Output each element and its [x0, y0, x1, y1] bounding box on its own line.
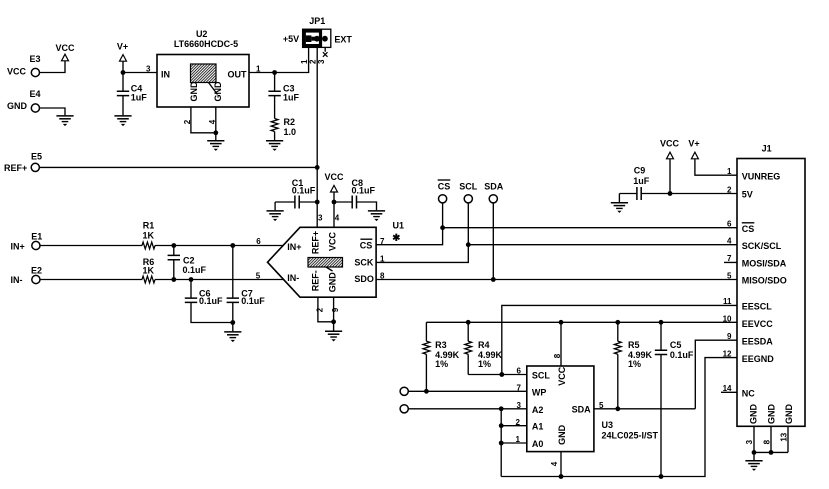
- svg-text:0.1uF: 0.1uF: [241, 296, 265, 306]
- svg-text:7: 7: [380, 237, 385, 246]
- svg-text:3: 3: [517, 401, 522, 410]
- svg-text:R1: R1: [143, 220, 155, 230]
- svg-text:GND: GND: [784, 404, 794, 425]
- svg-text:IN+: IN+: [11, 241, 25, 251]
- svg-text:1%: 1%: [478, 359, 491, 369]
- svg-text:E4: E4: [29, 89, 40, 99]
- svg-text:EESCL: EESCL: [742, 302, 773, 312]
- svg-text:A2: A2: [532, 405, 544, 415]
- svg-text:V+: V+: [688, 139, 699, 149]
- svg-text:GND: GND: [749, 404, 759, 425]
- svg-text:1uF: 1uF: [633, 176, 650, 186]
- svg-text:3: 3: [146, 64, 151, 73]
- svg-text:A0: A0: [532, 439, 544, 449]
- svg-text:8: 8: [380, 272, 385, 281]
- svg-text:1: 1: [256, 64, 261, 73]
- svg-text:0.1uF: 0.1uF: [352, 186, 376, 196]
- svg-text:C5: C5: [670, 340, 682, 350]
- svg-text:GND: GND: [557, 424, 567, 445]
- svg-text:JP1: JP1: [309, 16, 325, 26]
- svg-text:1K: 1K: [142, 266, 154, 276]
- svg-text:SDO: SDO: [354, 274, 374, 284]
- svg-text:OUT: OUT: [228, 70, 248, 80]
- svg-text:R3: R3: [435, 340, 447, 350]
- svg-text:1%: 1%: [628, 359, 641, 369]
- svg-text:13: 13: [779, 432, 788, 441]
- svg-text:7: 7: [517, 384, 522, 393]
- svg-text:12: 12: [723, 349, 732, 358]
- svg-text:VCC: VCC: [7, 66, 27, 76]
- svg-text:3: 3: [317, 59, 326, 64]
- svg-text:U2: U2: [196, 29, 208, 39]
- svg-text:24LC025-I/ST: 24LC025-I/ST: [602, 430, 659, 440]
- svg-text:11: 11: [723, 297, 732, 306]
- svg-text:SCL: SCL: [532, 370, 551, 380]
- svg-text:+5V: +5V: [283, 34, 299, 44]
- svg-text:4: 4: [727, 237, 732, 246]
- svg-text:E5: E5: [31, 152, 42, 162]
- svg-text:CS: CS: [742, 224, 755, 234]
- svg-text:IN-: IN-: [287, 273, 299, 283]
- svg-text:VCC: VCC: [557, 366, 567, 386]
- svg-text:R5: R5: [628, 340, 640, 350]
- svg-text:4: 4: [335, 213, 340, 222]
- svg-text:4: 4: [550, 461, 559, 466]
- svg-text:10: 10: [723, 314, 732, 323]
- svg-text:EEGND: EEGND: [742, 354, 775, 364]
- svg-text:3: 3: [318, 213, 323, 222]
- svg-text:SCK/SCL: SCK/SCL: [742, 241, 782, 251]
- svg-text:V+: V+: [117, 42, 128, 52]
- svg-text:NC: NC: [742, 389, 755, 399]
- svg-text:GND: GND: [213, 81, 223, 102]
- svg-text:SDA: SDA: [484, 181, 504, 191]
- svg-text:1%: 1%: [435, 359, 448, 369]
- svg-text:1uF: 1uF: [131, 93, 148, 103]
- svg-text:2: 2: [516, 418, 521, 427]
- svg-text:14: 14: [723, 384, 732, 393]
- svg-text:GND: GND: [7, 101, 28, 111]
- svg-text:5: 5: [599, 401, 604, 410]
- svg-text:2: 2: [315, 307, 324, 312]
- svg-text:GND: GND: [189, 81, 199, 102]
- svg-text:6: 6: [727, 220, 732, 229]
- svg-text:0.1uF: 0.1uF: [292, 186, 316, 196]
- svg-text:1K: 1K: [142, 231, 154, 241]
- svg-text:CS: CS: [360, 240, 373, 250]
- svg-text:1uF: 1uF: [283, 93, 300, 103]
- svg-text:EEVCC: EEVCC: [742, 319, 774, 329]
- svg-text:EESDA: EESDA: [742, 336, 774, 346]
- svg-text:MOSI/SDA: MOSI/SDA: [742, 259, 787, 269]
- svg-text:9: 9: [727, 332, 732, 341]
- svg-text:MISO/SDO: MISO/SDO: [742, 276, 787, 286]
- svg-text:REF-: REF-: [311, 270, 321, 291]
- svg-text:E3: E3: [29, 54, 40, 64]
- svg-text:E2: E2: [31, 266, 42, 276]
- svg-text:A1: A1: [532, 422, 544, 432]
- svg-text:SDA: SDA: [572, 405, 592, 415]
- svg-text:4: 4: [208, 119, 217, 124]
- svg-text:3: 3: [745, 439, 754, 444]
- svg-text:VCC: VCC: [660, 139, 680, 149]
- svg-text:GND: GND: [767, 404, 777, 425]
- svg-text:E1: E1: [31, 232, 42, 242]
- svg-text:R2: R2: [284, 117, 296, 127]
- svg-text:5: 5: [727, 271, 732, 280]
- svg-text:VUNREG: VUNREG: [742, 171, 781, 181]
- svg-text:2: 2: [727, 185, 732, 194]
- svg-text:7: 7: [727, 254, 732, 263]
- svg-text:SCK: SCK: [354, 258, 374, 268]
- svg-text:6: 6: [256, 237, 261, 246]
- svg-text:C2: C2: [183, 255, 195, 265]
- svg-text:CS: CS: [438, 181, 451, 191]
- svg-text:9: 9: [331, 307, 340, 312]
- svg-text:0.1uF: 0.1uF: [183, 265, 207, 275]
- svg-text:VCC: VCC: [327, 231, 337, 251]
- svg-text:C9: C9: [634, 166, 646, 176]
- svg-text:1: 1: [380, 255, 385, 264]
- svg-text:U1: U1: [393, 221, 405, 231]
- svg-text:R4: R4: [478, 340, 490, 350]
- svg-text:J1: J1: [762, 143, 772, 153]
- svg-text:WP: WP: [532, 388, 547, 398]
- svg-text:0.1uF: 0.1uF: [670, 350, 694, 360]
- svg-text:2: 2: [183, 119, 192, 124]
- svg-text:5: 5: [256, 271, 261, 280]
- svg-text:REF+: REF+: [311, 231, 321, 254]
- svg-text:IN+: IN+: [287, 242, 301, 252]
- svg-text:8: 8: [553, 353, 562, 358]
- svg-text:VCC: VCC: [55, 43, 75, 53]
- svg-text:LT6660HCDC-5: LT6660HCDC-5: [174, 39, 238, 49]
- svg-text:EXT: EXT: [334, 34, 352, 44]
- svg-text:VCC: VCC: [324, 172, 344, 182]
- svg-text:1.0: 1.0: [284, 127, 297, 137]
- svg-text:1: 1: [727, 167, 732, 176]
- svg-text:IN: IN: [161, 70, 170, 80]
- svg-text:REF+: REF+: [4, 163, 27, 173]
- svg-text:GND: GND: [327, 272, 337, 293]
- svg-text:1: 1: [516, 435, 521, 444]
- svg-text:6: 6: [517, 367, 522, 376]
- svg-text:0.1uF: 0.1uF: [199, 296, 223, 306]
- svg-text:IN-: IN-: [11, 275, 23, 285]
- svg-text:SCL: SCL: [459, 181, 478, 191]
- svg-text:5V: 5V: [742, 190, 753, 200]
- svg-text:1: 1: [300, 59, 309, 64]
- svg-text:U3: U3: [602, 420, 614, 430]
- svg-text:8: 8: [762, 439, 771, 444]
